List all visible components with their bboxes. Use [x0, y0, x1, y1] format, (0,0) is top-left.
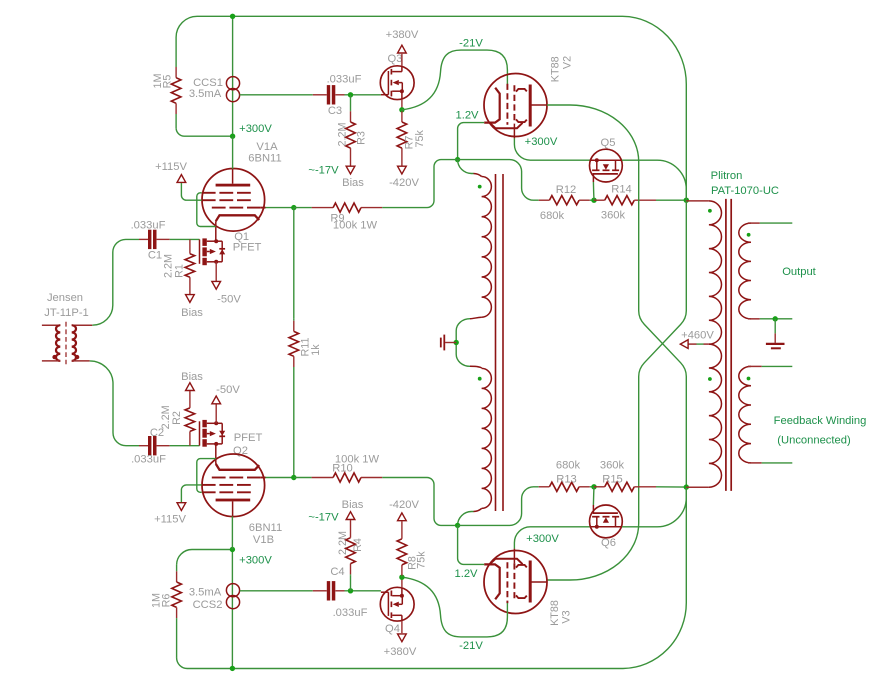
svg-text:~-17V: ~-17V — [308, 511, 339, 523]
wire R10 right up to K3 node — [382, 478, 457, 526]
svg-text:680k: 680k — [540, 210, 565, 222]
resistor R6 — [176, 565, 178, 571]
resistor R10 — [312, 477, 334, 479]
wire C2 to Q2 gate — [170, 445, 200, 447]
wire Feedback top lead — [748, 365, 762, 367]
svg-text:Feedback Winding: Feedback Winding — [774, 415, 867, 427]
svg-text:PFET: PFET — [234, 432, 263, 444]
svg-text:V1A: V1A — [256, 141, 278, 153]
svg-text:R15: R15 — [602, 474, 623, 486]
power arrow Bias (R2) — [186, 383, 195, 391]
wire top B+ rail — [176, 16, 686, 200]
node junction Output ground — [773, 316, 778, 321]
wire V1B g3 loop to cathode — [197, 459, 216, 493]
wire R9 node to zig — [294, 207, 312, 209]
pin C3 left — [313, 94, 327, 96]
wire Output ground stub — [774, 319, 776, 334]
wire winding bottom to K3 node — [474, 508, 482, 511]
wire V1A plate to +300V — [232, 136, 234, 169]
resistor R13 — [539, 486, 550, 488]
power arrow -420V (R8) — [398, 513, 407, 521]
svg-text:Plitron: Plitron — [711, 170, 743, 182]
node junction Q3 source/R7 — [399, 107, 404, 112]
power arrow +115V top — [177, 175, 186, 183]
pin C3 right — [335, 94, 344, 96]
wire input to C1 — [92, 239, 139, 325]
power arrow +460V — [680, 340, 688, 349]
pin Q4 source up — [401, 577, 403, 587]
resistor R3 — [350, 109, 352, 112]
svg-text:3.5mA: 3.5mA — [189, 88, 222, 100]
wire Feedback bottom lead — [748, 462, 762, 464]
svg-text:CCS1: CCS1 — [193, 77, 223, 89]
svg-text:V3: V3 — [561, 610, 573, 623]
svg-text:-21V: -21V — [459, 640, 483, 652]
wire primary top lead — [686, 200, 709, 202]
wire V1B g2 to R10 node — [266, 477, 294, 479]
svg-text:Bias: Bias — [181, 307, 203, 319]
pin C4 left — [313, 590, 327, 592]
wire CCS2 to C4 — [240, 590, 313, 592]
resistor R12 — [539, 199, 550, 201]
svg-text:R4: R4 — [352, 538, 364, 552]
capacitor C3 — [327, 85, 330, 104]
wire CCS1 vertical — [232, 16, 234, 136]
svg-text:75k: 75k — [414, 130, 426, 148]
svg-text:100k 1W: 100k 1W — [333, 220, 378, 232]
wire C3 node to R3 — [350, 95, 352, 111]
svg-text:Q3: Q3 — [388, 53, 403, 65]
svg-text:360k: 360k — [600, 460, 625, 472]
power arrow +115V bottom — [177, 503, 186, 511]
transistor Q3 PFET — [380, 66, 414, 100]
wire Q3 source to V2 grid (-21V net) — [402, 50, 508, 110]
svg-text:6BN11: 6BN11 — [249, 522, 282, 534]
transistor Q5 — [590, 149, 623, 182]
svg-text:C1: C1 — [148, 250, 162, 262]
ground symbol (Output) — [766, 343, 785, 345]
transformer T-DRV bottom winding — [470, 366, 482, 368]
svg-text:-50V: -50V — [217, 293, 241, 305]
transformer T-OUT primary bottom — [709, 344, 722, 487]
svg-text:R13: R13 — [556, 474, 577, 486]
svg-text:V1B: V1B — [253, 534, 274, 546]
pin Q4 drain down — [401, 621, 403, 633]
current source CCS1 — [226, 77, 239, 90]
node +300V junction V1A — [230, 134, 235, 139]
svg-text:2.2M: 2.2M — [337, 122, 349, 146]
wire V1A g3 loop to cathode — [197, 193, 216, 227]
capacitor C1 — [148, 230, 151, 249]
node junction C3/R3/Q3 — [348, 92, 353, 97]
wire Q5 right to primary top node — [622, 160, 686, 200]
pin Q2 source up — [215, 404, 217, 424]
wire R6 top to +300V node — [177, 550, 233, 565]
svg-text:KT88: KT88 — [549, 600, 561, 626]
wire V1B plate to +300V — [231, 516, 233, 549]
transformer T-IN right winding — [72, 324, 93, 326]
node junction primary top — [684, 198, 689, 203]
node junction V3 cathode / R10 / winding / R13 — [455, 523, 460, 528]
svg-text:+460V: +460V — [681, 329, 714, 341]
wire CCS1 to C3 — [240, 94, 313, 96]
power arrow Bias (R3) — [346, 166, 355, 174]
tube V3 KT88 — [484, 551, 547, 614]
svg-text:R2: R2 — [171, 411, 183, 425]
wire +115V to V1B grid — [181, 485, 201, 502]
svg-text:.033uF: .033uF — [131, 454, 166, 466]
svg-text:R12: R12 — [556, 184, 577, 196]
node T-OUT secondary dot — [747, 233, 751, 237]
wire R13 to Q6 gate node — [590, 486, 594, 488]
svg-text:R5: R5 — [162, 75, 174, 89]
resistor R7 — [401, 110, 403, 112]
svg-text:680k: 680k — [556, 460, 581, 472]
wire R15 to primary bottom node — [656, 486, 686, 488]
svg-text:CCS2: CCS2 — [193, 599, 223, 611]
wire R10 node to zig — [294, 477, 312, 479]
transistor Q2 PFET — [199, 421, 201, 445]
svg-text:-50V: -50V — [216, 384, 240, 396]
svg-text:Q5: Q5 — [601, 137, 616, 149]
svg-text:-21V: -21V — [459, 37, 483, 49]
svg-text:~-17V: ~-17V — [308, 164, 339, 176]
svg-text:V2: V2 — [562, 56, 574, 69]
capacitor C2 — [148, 436, 151, 455]
node junction C4/R4/Q4 — [348, 588, 353, 593]
wire Q6 right to primary bottom node — [622, 487, 686, 527]
node junction V2 cathode / R9 / winding / R12 — [455, 157, 460, 162]
svg-text:2.2M: 2.2M — [337, 531, 349, 555]
wire CCS2 vertical — [231, 550, 233, 669]
svg-text:360k: 360k — [601, 210, 626, 222]
transformer T-IN core — [65, 322, 67, 365]
wire V2 cathode to node — [458, 123, 485, 160]
node junction R9/R11 — [291, 205, 296, 210]
svg-text:+300V: +300V — [239, 123, 272, 135]
svg-text:(Unconnected): (Unconnected) — [777, 435, 851, 447]
svg-text:3.5mA: 3.5mA — [189, 587, 222, 599]
svg-text:+300V: +300V — [526, 533, 559, 545]
power arrow +380V (Q4) — [398, 634, 407, 642]
transformer T-OUT secondary (Output) — [739, 223, 751, 319]
wire +115V to V1A grid — [181, 183, 201, 200]
resistor R5 — [175, 38, 177, 68]
transistor Q4 PFET — [380, 587, 414, 621]
resistor R14 — [594, 199, 605, 201]
node junction R10/R11 — [291, 475, 296, 480]
svg-text:PFET: PFET — [233, 241, 262, 253]
svg-text:R6: R6 — [161, 594, 173, 608]
node junction R13/R15/Q6-gate — [591, 484, 596, 489]
svg-text:+115V: +115V — [154, 514, 186, 526]
svg-text:JT-11P-1: JT-11P-1 — [44, 307, 89, 319]
pin C1 left — [139, 238, 148, 240]
ground symbol (driver CT) — [445, 342, 456, 344]
wire R12 to Q5 gate node — [590, 199, 594, 201]
pin C4 right — [335, 590, 344, 592]
svg-text:1k: 1k — [310, 344, 322, 356]
node junction Q4 source/R8 — [399, 575, 404, 580]
svg-text:1.2V: 1.2V — [454, 568, 478, 580]
power arrow -420V (R7) — [398, 166, 407, 174]
wire C1 to Q1 gate — [170, 238, 200, 240]
svg-text:75k: 75k — [416, 551, 428, 569]
svg-text:R14: R14 — [611, 184, 632, 196]
wire K3 node to R13 — [458, 487, 539, 526]
svg-text:-420V: -420V — [389, 499, 419, 511]
pin C2 left — [139, 445, 148, 447]
svg-text:+115V: +115V — [155, 161, 187, 173]
power arrow Bias (R1) — [186, 295, 195, 303]
svg-text:.033uF: .033uF — [333, 607, 368, 619]
svg-text:R10: R10 — [332, 463, 353, 475]
pin Q3 drain up — [401, 54, 403, 66]
svg-text:+300V: +300V — [239, 555, 272, 567]
wire R11 net vertical — [293, 208, 295, 478]
svg-text:+300V: +300V — [525, 136, 558, 148]
transistor Q6 — [590, 505, 623, 538]
svg-text:Bias: Bias — [181, 371, 203, 383]
svg-text:Q6: Q6 — [601, 537, 616, 549]
transistor Q1 PFET — [199, 239, 201, 263]
power arrow -50V (Q2) — [212, 396, 221, 404]
capacitor C4 — [327, 581, 330, 600]
wire Q6 gate up — [592, 487, 595, 505]
svg-text:-420V: -420V — [389, 177, 419, 189]
wire V1A g2 to R9 node — [266, 207, 294, 209]
wire R5 to +300V rail — [176, 128, 233, 136]
wire V2 screen to Q5 (+300V net) — [514, 138, 590, 160]
resistor R4 — [350, 573, 352, 576]
svg-text:C4: C4 — [330, 566, 344, 578]
wire R9 right up to K2 node — [382, 160, 457, 208]
svg-text:PAT-1070-UC: PAT-1070-UC — [711, 185, 779, 197]
transformer T-DRV top winding — [482, 177, 492, 318]
wire C3 to Q3 gate — [345, 94, 381, 96]
wire Q5 gate down — [592, 182, 595, 200]
power arrow -50V (Q1) — [212, 281, 221, 289]
svg-text:+380V: +380V — [384, 646, 417, 658]
svg-text:.033uF: .033uF — [327, 74, 362, 86]
node T-IN polarity dot right — [75, 355, 79, 359]
wire V3 cathode to node — [458, 525, 485, 564]
svg-text:Bias: Bias — [342, 177, 364, 189]
pin Q1 source down — [215, 262, 217, 282]
pin Q3 source down — [401, 100, 403, 110]
resistor R15 — [594, 486, 605, 488]
svg-text:.033uF: .033uF — [131, 220, 166, 232]
node junction winding CT / ground — [454, 340, 459, 345]
tube V1A 6BN11 — [202, 169, 265, 232]
wire primary bottom lead — [686, 486, 709, 488]
node T-OUT primary dot bottom — [708, 377, 712, 381]
tube V2 KT88 — [484, 74, 547, 137]
wire K2 node to winding top — [458, 160, 474, 174]
node junction top-rail/CCS1 — [230, 14, 235, 19]
node +300V junction V1B — [230, 547, 235, 552]
pin C2 right — [157, 445, 170, 447]
power arrow +380V (Q3) — [398, 45, 407, 53]
resistor R9 — [312, 207, 334, 209]
wire bottom B- rail — [177, 487, 687, 668]
wire K2 node to R12 — [458, 160, 539, 201]
svg-text:1.2V: 1.2V — [455, 110, 479, 122]
resistor R11 — [293, 319, 295, 321]
node T-IN polarity dot left — [52, 355, 56, 359]
node T-OUT feedback dot — [747, 377, 751, 381]
wire C4 node to R4 — [350, 575, 352, 591]
wire winding center tap to ground node — [456, 319, 470, 367]
transformer T-IN left winding — [42, 324, 60, 326]
wire Q4 source to V3 grid (-21V net) — [402, 577, 508, 637]
node T-DRV polarity dot top — [478, 185, 482, 189]
svg-text:C3: C3 — [328, 105, 342, 117]
transformer T-OUT primary top — [709, 201, 722, 344]
wire T-IN bottom to C2 — [90, 361, 139, 446]
current source CCS2 — [226, 584, 239, 597]
node junction R12/R14/Q5-gate — [591, 198, 596, 203]
node T-DRV polarity dot bottom — [478, 377, 482, 381]
transformer T-OUT core — [725, 199, 727, 491]
node T-OUT primary dot top — [708, 209, 712, 213]
tube V1B 6BN11 — [202, 454, 265, 517]
resistor R1 — [189, 239, 191, 253]
svg-text:Bias: Bias — [342, 499, 364, 511]
svg-text:Q4: Q4 — [385, 623, 400, 635]
transformer T-DRV core — [495, 174, 497, 511]
power arrow Bias (R4) — [346, 512, 355, 520]
wire R14 to primary top node — [656, 199, 686, 201]
wire primary center tap — [688, 343, 696, 345]
wire Output top lead — [748, 222, 760, 224]
node junction bottom-rail/CCS2 — [230, 666, 235, 671]
wire C4 to Q4 gate — [345, 590, 381, 592]
wire V2 plate sweep down — [547, 105, 686, 487]
svg-text:R3: R3 — [356, 131, 368, 145]
svg-text:KT88: KT88 — [550, 56, 562, 82]
svg-text:Jensen: Jensen — [47, 292, 83, 304]
svg-text:R1: R1 — [174, 264, 186, 278]
wire V3 screen to Q6 (+300V net) — [514, 527, 590, 549]
svg-text:+380V: +380V — [386, 29, 419, 41]
resistor R2 — [189, 431, 191, 445]
wire primary-top node down-cross to V3 plate — [547, 200, 686, 580]
resistor R8 — [401, 576, 403, 578]
node junction primary bottom — [684, 484, 689, 489]
svg-text:Output: Output — [782, 266, 816, 278]
wire Output bottom lead — [748, 318, 760, 320]
svg-text:6BN11: 6BN11 — [248, 153, 281, 165]
pin C1 right — [157, 238, 170, 240]
transformer T-OUT feedback winding — [739, 366, 751, 462]
